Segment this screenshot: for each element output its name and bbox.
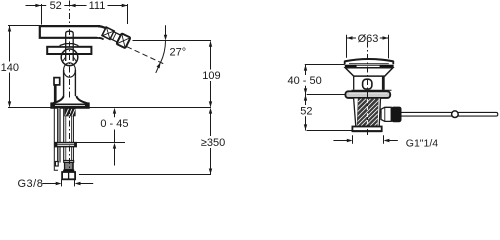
- extension line x127.5: [127, 4, 129, 24]
- dim 0-45 upper arrow: [113, 108, 116, 114]
- svg-text:52: 52: [50, 0, 62, 12]
- dim 52/111 line: [26, 5, 128, 7]
- dim dia63 extension lines: [347, 35, 389, 59]
- dome right curl: [392, 61, 394, 64]
- svg-text:27°: 27°: [169, 46, 186, 58]
- dim 111 right arrow: [122, 4, 128, 7]
- overflow hole: [363, 79, 372, 89]
- joint neck line: [113, 33, 116, 40]
- base flange skirt: [51, 96, 88, 108]
- 27 deg arrow tail vertical: [165, 25, 167, 35]
- tube hook: [55, 162, 58, 167]
- spout bend inner curve: [99, 38, 104, 40]
- dim G1 1/4 line right: [389, 140, 398, 142]
- svg-text:40 - 50: 40 - 50: [287, 75, 321, 87]
- under-deck line: [76, 142, 125, 144]
- spout bend fill: [97, 27, 109, 39]
- 52r up arrow: [304, 95, 307, 101]
- 27 deg arc: [161, 41, 166, 63]
- deck line: [8, 107, 211, 109]
- white supply tube: [64, 108, 74, 161]
- bottom cap: [352, 127, 381, 132]
- elbow cross mark: [103, 28, 114, 39]
- dim 40-50 line: [305, 65, 307, 95]
- dim G3/8 right arrow: [75, 182, 81, 185]
- dim 40-50 mid extension: [307, 94, 346, 96]
- spout elbow and aerator: [101, 26, 130, 48]
- dia63 right arrow: [383, 36, 389, 39]
- 40-50 down arrow: [304, 88, 307, 94]
- dim 52 left arrow: [35, 4, 41, 7]
- aerator cross mark: [118, 34, 130, 47]
- dim 52r line: [305, 95, 307, 131]
- ball cone marks: [62, 57, 76, 62]
- dim dia63 line: [347, 37, 389, 39]
- dim 40-50 top extension: [305, 64, 345, 66]
- svg-text:52: 52: [300, 105, 312, 117]
- ring band lines: [345, 65, 394, 67]
- drain dome cap: [345, 59, 394, 62]
- tailpiece thread hatch: [357, 99, 379, 127]
- dim G1 1/4 ticks: [353, 135, 384, 144]
- dim 52 right arrow: [70, 4, 76, 7]
- spout bend outer curve: [98, 26, 109, 31]
- hose nuts: [62, 172, 75, 179]
- G1 1/4 right arrow: [384, 139, 390, 142]
- dia63 left arrow: [347, 36, 353, 39]
- aerator body: [116, 33, 130, 48]
- 52r down arrow: [304, 124, 307, 130]
- handle crossbar: [47, 47, 91, 54]
- dim G3/8 line left: [42, 183, 56, 185]
- dome left curl: [344, 61, 346, 64]
- faucet centerline lower: [69, 29, 71, 100]
- 27 deg reference line: [133, 40, 212, 42]
- nut top band: [63, 170, 74, 172]
- 27 deg lower arrow: [157, 62, 161, 68]
- faucet body cylinder: [64, 70, 76, 97]
- pop-up rod tab: [54, 78, 60, 85]
- faucet centerline upper: [69, 1, 71, 26]
- ring band dark ends: [345, 65, 357, 68]
- dim 0-45 lower line: [114, 130, 116, 166]
- dim 140 up arrow: [8, 26, 11, 32]
- dim 140 down arrow: [8, 101, 11, 107]
- dim 109 line: [210, 42, 212, 107]
- handle stem: [66, 31, 74, 61]
- dim G3/8 ticks: [62, 179, 75, 186]
- dim G3/8 left arrow: [56, 182, 62, 185]
- dim 0-45 upper tail: [114, 112, 116, 117]
- svg-text:140: 140: [1, 62, 19, 74]
- spout axis dashed: [127, 47, 164, 64]
- clamp plate: [55, 143, 76, 147]
- svg-text:G1"1/4: G1"1/4: [406, 137, 438, 149]
- faucet spout bar: [40, 26, 101, 38]
- joint neck: [110, 32, 120, 42]
- handle stem trapezoid: [60, 44, 78, 47]
- svg-text:G3/8: G3/8: [18, 178, 44, 189]
- dim 109 down arrow: [209, 101, 212, 107]
- 27 deg arrow down: [164, 35, 167, 41]
- outlet knob: [391, 107, 401, 123]
- extension line x41: [41, 4, 43, 25]
- handle ball: [61, 49, 78, 66]
- dim 0-45 lower arrow: [113, 143, 116, 149]
- under-lip line: [349, 63, 389, 65]
- pop-up rod bar: [54, 85, 57, 104]
- 27 deg lower arrow tail: [156, 62, 161, 73]
- 40-50 up arrow: [304, 65, 307, 71]
- base flange slit: [55, 104, 85, 107]
- bottom reference line: [79, 174, 211, 176]
- dim G1 1/4 line left: [333, 140, 347, 142]
- step line: [352, 89, 392, 91]
- dim 140 extension top: [8, 25, 40, 27]
- base flange dark band: [51, 104, 88, 108]
- dim 140 line: [9, 26, 11, 107]
- dim >=350 upper arrow: [209, 108, 212, 114]
- tailpiece: [354, 98, 381, 127]
- hose collar: [64, 161, 74, 163]
- neck: [345, 68, 393, 76]
- thin rod left: [54, 108, 58, 170]
- dim >=350 down arrow: [209, 169, 212, 175]
- dim G3/8 line right: [80, 183, 93, 185]
- grey supply tube: [57, 108, 60, 163]
- actuating rod: [402, 112, 498, 116]
- threaded section: [65, 162, 74, 169]
- svg-text:109: 109: [202, 70, 220, 82]
- threaded shank: [64, 108, 75, 116]
- dim >=350 line: [210, 112, 212, 174]
- dim 52 bottom extension: [307, 130, 353, 132]
- svg-text:0 - 45: 0 - 45: [100, 118, 128, 130]
- dim 109 up arrow: [209, 41, 212, 47]
- spool body: [354, 76, 384, 90]
- seat flange: [345, 91, 390, 98]
- outlet collar: [381, 107, 391, 121]
- svg-text:≥350: ≥350: [201, 137, 225, 149]
- svg-text:111: 111: [89, 0, 106, 12]
- drain centerline: [367, 42, 369, 136]
- rod ball: [452, 111, 459, 118]
- body top rim ellipse: [64, 63, 76, 77]
- G1 1/4 left arrow: [347, 139, 353, 142]
- elbow segment: [102, 27, 114, 39]
